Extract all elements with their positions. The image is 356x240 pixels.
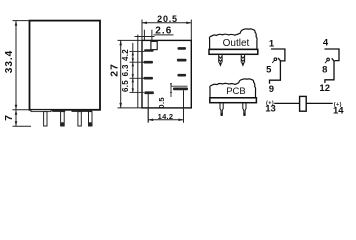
pin 8 stub (325, 61, 327, 63)
pcb cloud (210, 79, 256, 98)
coil wire right (306, 102, 333, 104)
coil pad (vertical) (151, 41, 157, 49)
relay side view body (30, 21, 101, 110)
dimension 2.6 tick right (151, 30, 153, 41)
svg-text:12: 12 (319, 83, 330, 94)
dimension 2.6 line (135, 36, 155, 38)
dimension 33.4 extension bottom (13, 109, 30, 111)
svg-text:2.6: 2.6 (155, 26, 172, 37)
base ledge step (31, 110, 51, 112)
pcb pin right (243, 103, 246, 116)
pad left row 2 (144, 61, 154, 64)
dimension 2.6 left extension (pin column reference) (137, 35, 139, 108)
dimension 20.5 extension right (190, 20, 192, 41)
coil (300, 96, 307, 111)
NO contact pin 5 (274, 58, 277, 61)
dimension 27 line (120, 40, 122, 108)
svg-text:14.2: 14.2 (158, 112, 174, 121)
pad left row 1 (144, 49, 154, 52)
svg-text:0.5: 0.5 (157, 97, 166, 109)
dimension 0.5 tick (170, 83, 172, 97)
dimension 14.2 line (148, 119, 183, 121)
movable arm pole A (270, 58, 282, 84)
svg-text:7: 7 (3, 115, 15, 121)
svg-text:27: 27 (108, 63, 120, 76)
pcb base bar (210, 98, 257, 103)
svg-text:4.2: 4.2 (121, 49, 130, 61)
dimension 20.5 line (142, 22, 191, 24)
outlet cloud (209, 29, 257, 49)
pcb footprint outline (142, 40, 191, 108)
pad right row 3 (177, 74, 186, 77)
stem under pad right row 4 (183, 90, 185, 122)
dimension 14.2 extension left (147, 108, 149, 123)
outlet pin right (241, 54, 244, 62)
pin 2 side view (61, 112, 65, 126)
svg-text:5: 5 (266, 64, 272, 75)
svg-text:4: 4 (323, 38, 329, 49)
coil wire left (274, 102, 299, 104)
pad left row 4 (144, 91, 154, 94)
svg-text:6.3: 6.3 (121, 64, 130, 76)
pin 1 side view (44, 112, 47, 126)
dimension 27 extension top (118, 39, 143, 41)
pad right row 2 (177, 59, 187, 62)
row extension lines left (130, 50, 145, 52)
svg-text:33.4: 33.4 (4, 50, 15, 73)
pcb pin left (220, 103, 223, 116)
base ledge dark strip right (72, 110, 93, 112)
dimension 33.4 line (15, 21, 17, 110)
svg-text:6.5: 6.5 (121, 80, 130, 92)
svg-text:14: 14 (333, 105, 344, 116)
outlet base bar (209, 49, 258, 54)
svg-text:13: 13 (265, 104, 276, 115)
dimension 27 extension bottom (118, 107, 143, 109)
pin 3 side view (78, 112, 81, 126)
dimension 7 line (15, 110, 17, 127)
svg-text:Outlet: Outlet (223, 38, 250, 49)
pin 4 wire with NC hook (325, 49, 340, 61)
svg-text:PCB: PCB (226, 86, 246, 97)
movable arm pole B (325, 58, 335, 83)
dimension 7 extension bottom (13, 125, 32, 127)
dimension 2.6 tick left (143, 30, 145, 41)
svg-text:9: 9 (269, 84, 274, 95)
dimension 0.5 reference line (171, 85, 188, 87)
stem under pad left row 4 (147, 94, 149, 123)
pin 5 stub (272, 61, 274, 63)
dimension 33.4 extension top (13, 20, 30, 22)
svg-text:8: 8 (322, 64, 327, 75)
pad left row 3 (144, 77, 154, 80)
NO contact pin 8 (327, 58, 330, 61)
label 2.6 underline (154, 34, 174, 36)
pin 4 side view (89, 112, 93, 126)
row pitch dimension line (132, 43, 134, 93)
dimension 20.5 extension left (141, 20, 143, 41)
base ledge dark strip left (52, 110, 65, 112)
pad right row 4 (173, 88, 188, 91)
svg-text:1: 1 (269, 38, 275, 49)
svg-text:20.5: 20.5 (157, 14, 178, 24)
pad right row 1 (178, 47, 187, 50)
pin 1 wire with NC hook (271, 49, 285, 61)
outlet pin left (219, 54, 222, 62)
dimension 14.2 extension right (183, 108, 185, 123)
